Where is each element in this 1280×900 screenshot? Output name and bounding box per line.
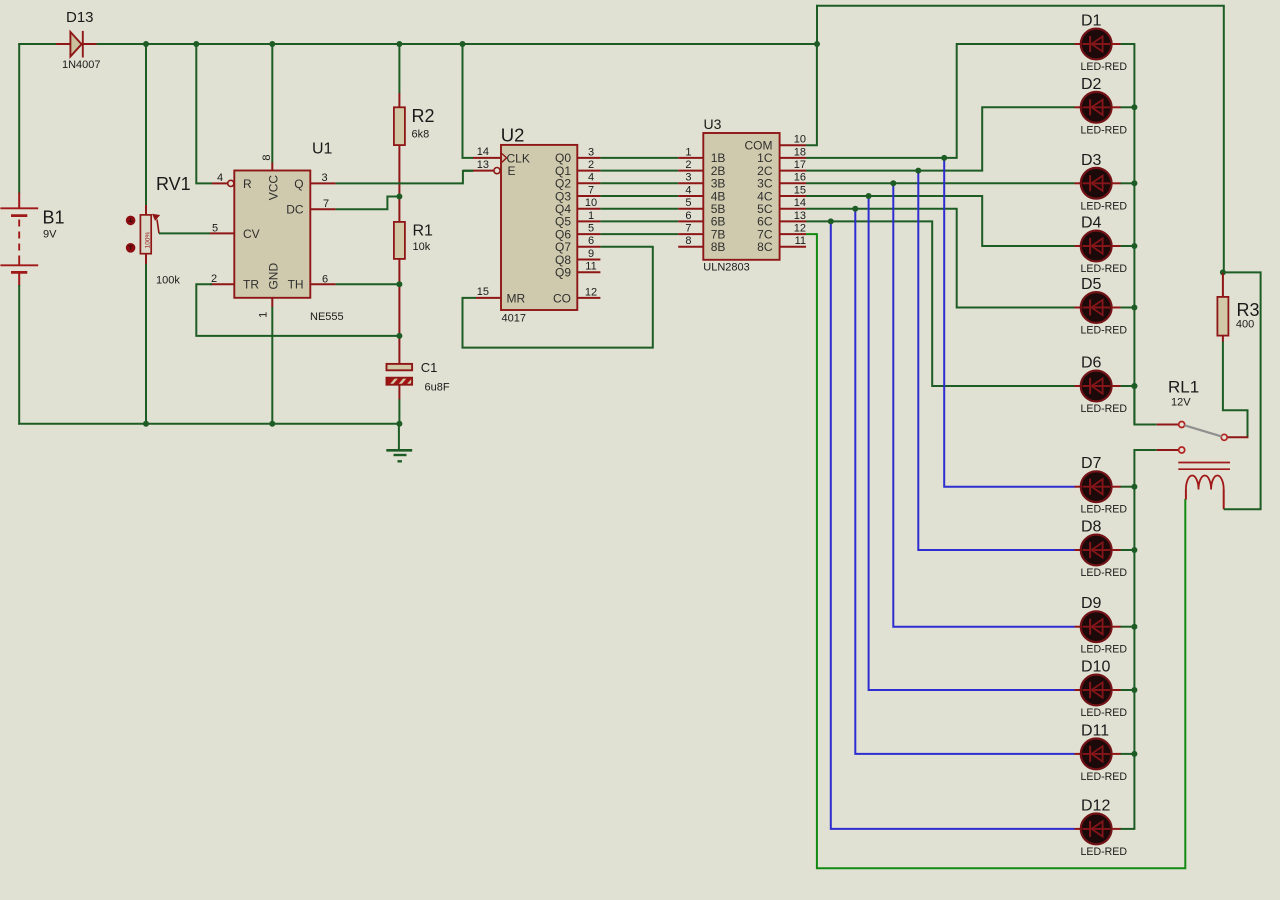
pin 4 Q2 of U2 bbox=[555, 172, 600, 191]
svg-text:Q: Q bbox=[294, 177, 303, 191]
wire D12 cathode link bbox=[1121, 828, 1136, 830]
pin 17 2C of U3 bbox=[757, 159, 806, 178]
svg-text:6u8F: 6u8F bbox=[425, 382, 450, 394]
svg-text:15: 15 bbox=[794, 184, 806, 196]
svg-text:16: 16 bbox=[794, 172, 806, 184]
wire Q1 to 2B bbox=[600, 170, 678, 172]
wire Q5 to 6B bbox=[600, 220, 678, 222]
svg-text:10: 10 bbox=[794, 133, 806, 145]
pin 11 Q9 of U2 bbox=[555, 261, 600, 280]
svg-text:D2: D2 bbox=[1081, 76, 1102, 93]
wire 3C to D3 bbox=[806, 182, 1075, 184]
svg-text:17: 17 bbox=[794, 159, 806, 171]
svg-text:D7: D7 bbox=[1081, 455, 1102, 472]
svg-text:15: 15 bbox=[477, 286, 489, 298]
svg-text:12: 12 bbox=[794, 223, 806, 235]
pin 18 1C of U3 bbox=[757, 146, 806, 165]
relay RL1 12V bbox=[1168, 378, 1230, 510]
svg-text:U3: U3 bbox=[704, 116, 722, 132]
wire cathode rail upper bbox=[1134, 44, 1156, 425]
wire D11 cathode link bbox=[1121, 753, 1136, 755]
wire blue tap to D12 bbox=[831, 221, 1075, 829]
LED D5 LED-RED bbox=[1075, 276, 1128, 337]
pin 3 Q0 of U2 bbox=[555, 146, 600, 165]
svg-text:LED-RED: LED-RED bbox=[1081, 644, 1128, 656]
svg-text:D11: D11 bbox=[1081, 722, 1109, 739]
LED D1 LED-RED bbox=[1075, 13, 1128, 74]
pin 13 6C of U3 bbox=[757, 210, 806, 229]
svg-text:6: 6 bbox=[685, 210, 691, 222]
node pole junction D6 bbox=[1131, 383, 1137, 389]
pin 14 CLK of U2 bbox=[473, 146, 530, 165]
svg-text:4: 4 bbox=[217, 172, 223, 184]
wire 6C to D6 bbox=[806, 221, 1075, 386]
svg-text:3: 3 bbox=[322, 172, 328, 184]
node TH junction bbox=[396, 281, 402, 287]
wire R3 to switch NO bbox=[1223, 342, 1248, 438]
wire R pin to VCC rail bbox=[196, 44, 212, 183]
wire R2 to R1 link bbox=[398, 145, 400, 222]
node rail D7 bbox=[1131, 484, 1137, 490]
node rail D3 bbox=[1131, 180, 1137, 186]
driver U3 ULN2803 body bbox=[703, 116, 779, 274]
svg-text:4: 4 bbox=[685, 184, 691, 196]
svg-text:LED-RED: LED-RED bbox=[1081, 771, 1128, 783]
node rail D11 bbox=[1131, 751, 1137, 757]
svg-text:E: E bbox=[508, 164, 516, 178]
svg-text:CO: CO bbox=[553, 291, 571, 305]
svg-text:LED-RED: LED-RED bbox=[1081, 61, 1128, 73]
svg-text:7: 7 bbox=[323, 198, 329, 210]
svg-text:6k8: 6k8 bbox=[412, 128, 430, 140]
LED D2 LED-RED bbox=[1075, 76, 1128, 137]
svg-text:VCC: VCC bbox=[267, 175, 281, 201]
wire U1 GND pin down to rail bbox=[271, 307, 273, 425]
pin 3 Q of U1 bbox=[294, 172, 335, 191]
node rail D5 bbox=[1131, 305, 1137, 311]
node C1 ground rail junction bbox=[396, 421, 402, 427]
svg-text:400: 400 bbox=[1236, 319, 1254, 331]
wire battery negative lead down bbox=[18, 285, 20, 425]
svg-text:D5: D5 bbox=[1081, 276, 1102, 293]
wire blue tap to D10 bbox=[869, 196, 1075, 690]
svg-text:4017: 4017 bbox=[502, 313, 526, 325]
node rail COM riser bbox=[814, 41, 820, 47]
pin 5 CV of U1 bbox=[210, 222, 260, 241]
wire 5C to D5 bbox=[806, 209, 1075, 308]
pin 2 TR of U1 bbox=[210, 273, 259, 292]
pin 6 TH of U1 bbox=[288, 273, 336, 291]
svg-text:RL1: RL1 bbox=[1168, 378, 1199, 397]
potentiometer RV1 100k bbox=[126, 174, 191, 287]
wire RV1 top lead bbox=[145, 44, 147, 206]
svg-text:D10: D10 bbox=[1081, 659, 1110, 676]
wire pole stub bbox=[1157, 424, 1179, 426]
pin 5 Q6 of U2 bbox=[555, 223, 600, 242]
svg-text:LED-RED: LED-RED bbox=[1081, 200, 1128, 212]
svg-text:8C: 8C bbox=[757, 240, 773, 254]
svg-text:R3: R3 bbox=[1237, 300, 1260, 320]
wire E stub link bbox=[463, 170, 473, 172]
svg-text:9: 9 bbox=[588, 248, 594, 260]
LED D12 LED-RED bbox=[1075, 797, 1128, 858]
wire blue tap to D7 bbox=[944, 158, 1074, 487]
svg-text:12: 12 bbox=[585, 286, 597, 298]
pin 1 GND of U1 bbox=[258, 263, 281, 318]
svg-text:LED-RED: LED-RED bbox=[1081, 325, 1128, 337]
svg-text:3: 3 bbox=[588, 146, 594, 158]
svg-text:R: R bbox=[243, 177, 252, 191]
svg-text:1N4007: 1N4007 bbox=[62, 59, 101, 71]
svg-text:14: 14 bbox=[794, 197, 806, 209]
wire COM to top rail bbox=[806, 44, 817, 145]
svg-text:4: 4 bbox=[588, 172, 594, 184]
wire VCC rail main segment (D13 to COM drop) bbox=[97, 43, 818, 45]
node R3 top junction bbox=[1220, 269, 1226, 275]
pin 8 VCC of U1 bbox=[261, 154, 281, 200]
wire Q7 to reset loop bbox=[600, 246, 653, 248]
wire Q4 to 5B bbox=[600, 208, 678, 210]
node TR loop junction bbox=[396, 333, 402, 339]
node RV1 rail junction bbox=[143, 421, 149, 427]
pin 7 7B of U3 bbox=[678, 223, 725, 242]
node rail D8 bbox=[1131, 547, 1137, 553]
battery B1 9V bbox=[0, 44, 64, 286]
wire VCC rail left segment (battery to D13) bbox=[18, 43, 56, 45]
svg-text:D13: D13 bbox=[66, 9, 94, 26]
node tap D11 bbox=[852, 206, 858, 212]
wire Q6 to 7B bbox=[600, 233, 678, 235]
svg-text:8: 8 bbox=[261, 154, 273, 160]
pin 6 6B of U3 bbox=[678, 210, 725, 229]
svg-text:1: 1 bbox=[588, 210, 594, 222]
LED D11 LED-RED bbox=[1075, 722, 1128, 783]
svg-text:LED-RED: LED-RED bbox=[1081, 707, 1128, 719]
pin 9 Q8 of U2 bbox=[555, 248, 600, 267]
svg-text:NE555: NE555 bbox=[310, 311, 344, 323]
svg-text:R2: R2 bbox=[412, 106, 435, 126]
svg-text:18: 18 bbox=[794, 146, 806, 158]
node rail D4 bbox=[1131, 243, 1137, 249]
wire 2C to D2 bbox=[806, 107, 1075, 170]
wire bottom ground rail bbox=[18, 423, 399, 425]
wire cathode rail lower bbox=[1134, 450, 1156, 829]
wire top rail to right side bbox=[816, 5, 1225, 7]
node DC junction bbox=[396, 194, 402, 200]
LED D10 LED-RED bbox=[1075, 659, 1128, 720]
svg-text:3: 3 bbox=[685, 172, 691, 184]
LED D8 LED-RED bbox=[1075, 519, 1128, 580]
node U1 GND rail junction bbox=[269, 421, 275, 427]
svg-text:MR: MR bbox=[507, 291, 526, 305]
wire NO stub bbox=[1227, 436, 1248, 438]
node rail RV1 bbox=[143, 41, 149, 47]
svg-text:D12: D12 bbox=[1081, 797, 1110, 814]
wire blue tap to D9 bbox=[893, 183, 1074, 626]
wire R1 bottom to C1 bbox=[398, 259, 400, 364]
svg-text:B1: B1 bbox=[43, 208, 65, 228]
svg-text:LED-RED: LED-RED bbox=[1081, 263, 1128, 275]
pin 2 Q1 of U2 bbox=[555, 159, 600, 178]
node rail D9 bbox=[1131, 624, 1137, 630]
svg-text:D1: D1 bbox=[1081, 13, 1102, 30]
node tap D8 bbox=[915, 168, 921, 174]
node tap D7 bbox=[941, 155, 947, 161]
pin 8 8B of U3 bbox=[678, 235, 725, 254]
svg-text:1: 1 bbox=[258, 312, 270, 318]
pin 4 R of U1 bbox=[212, 172, 252, 191]
wire D8 cathode link bbox=[1121, 549, 1136, 551]
wire D10 cathode link bbox=[1121, 689, 1136, 691]
svg-text:100%: 100% bbox=[145, 231, 152, 248]
pin 10 Q4 of U2 bbox=[555, 197, 600, 216]
wire D6 cathode link bbox=[1121, 385, 1136, 387]
pin 12 CO of U2 bbox=[553, 286, 600, 305]
svg-text:TR: TR bbox=[243, 278, 259, 292]
svg-text:13: 13 bbox=[794, 210, 806, 222]
node rail R pin bbox=[193, 41, 199, 47]
svg-text:8B: 8B bbox=[711, 240, 726, 254]
svg-text:U2: U2 bbox=[501, 124, 525, 145]
pin 3 3B of U3 bbox=[678, 172, 725, 191]
wire C1 bottom to rail bbox=[398, 399, 400, 424]
wire D7 cathode link bbox=[1121, 486, 1136, 488]
wire D4 cathode link bbox=[1121, 245, 1136, 247]
svg-text:LED-RED: LED-RED bbox=[1081, 504, 1128, 516]
counter U2 4017 body bbox=[501, 124, 578, 324]
svg-text:12V: 12V bbox=[1171, 397, 1191, 409]
svg-text:D4: D4 bbox=[1081, 215, 1102, 232]
svg-text:Q9: Q9 bbox=[555, 266, 571, 280]
node tap D12 bbox=[828, 218, 834, 224]
pin 11 8C of U3 bbox=[757, 235, 806, 254]
pin 6 Q7 of U2 bbox=[555, 235, 600, 254]
svg-text:GND: GND bbox=[267, 263, 281, 290]
LED D9 LED-RED bbox=[1075, 595, 1128, 656]
node rail D10 bbox=[1131, 687, 1137, 693]
svg-text:RV1: RV1 bbox=[156, 174, 191, 194]
svg-text:D9: D9 bbox=[1081, 595, 1102, 612]
node rail D6 bbox=[1131, 383, 1137, 389]
node tap D10 bbox=[866, 193, 872, 199]
pin 16 3C of U3 bbox=[757, 172, 806, 191]
wire blue tap to D8 bbox=[918, 171, 1074, 550]
LED D6 LED-RED bbox=[1075, 355, 1128, 416]
svg-text:10: 10 bbox=[585, 197, 597, 209]
svg-text:ULN2803: ULN2803 bbox=[703, 262, 749, 274]
pin 12 7C of U3 bbox=[757, 223, 806, 242]
wire top link rail riser bbox=[816, 5, 818, 45]
svg-text:5: 5 bbox=[212, 222, 218, 234]
svg-text:C1: C1 bbox=[421, 360, 438, 375]
wire 1C to D1 bbox=[806, 44, 1075, 158]
svg-text:U1: U1 bbox=[312, 141, 333, 158]
resistor R2 6k8 bbox=[394, 93, 435, 145]
svg-text:10k: 10k bbox=[413, 241, 431, 253]
wire Q output to E bbox=[336, 171, 474, 184]
wire D5 cathode link bbox=[1121, 307, 1136, 309]
svg-text:7: 7 bbox=[588, 184, 594, 196]
wire right drop to R3 bbox=[1223, 6, 1225, 273]
svg-text:2: 2 bbox=[211, 273, 217, 285]
svg-text:13: 13 bbox=[477, 159, 489, 171]
pin 13 E of U2 bbox=[473, 159, 516, 178]
svg-text:9V: 9V bbox=[43, 229, 57, 241]
svg-text:5: 5 bbox=[685, 197, 691, 209]
svg-text:LED-RED: LED-RED bbox=[1081, 124, 1128, 136]
op-amp U1 NE555 body bbox=[234, 141, 343, 324]
diode D13 1N4007 bbox=[56, 9, 101, 71]
LED D3 LED-RED bbox=[1075, 152, 1128, 213]
svg-text:CV: CV bbox=[243, 227, 260, 241]
node rail D2 bbox=[1131, 104, 1137, 110]
svg-text:DC: DC bbox=[286, 203, 304, 217]
wire D3 cathode link bbox=[1121, 182, 1136, 184]
pin 1 Q5 of U2 bbox=[555, 210, 600, 229]
wire D1 cathode link bbox=[1121, 43, 1136, 45]
node rail R2 bbox=[396, 41, 402, 47]
svg-text:LED-RED: LED-RED bbox=[1081, 403, 1128, 415]
node rail U1 VCC bbox=[269, 41, 275, 47]
wire DC to R1-R2 junction bbox=[336, 197, 400, 210]
node tap D9 bbox=[890, 180, 896, 186]
svg-text:2: 2 bbox=[685, 159, 691, 171]
wire Q3 to 4B bbox=[600, 195, 678, 197]
wire pole to cathode rail bbox=[1133, 386, 1135, 425]
svg-text:D6: D6 bbox=[1081, 355, 1102, 372]
wire TR loop bbox=[196, 284, 399, 336]
svg-text:5: 5 bbox=[588, 223, 594, 235]
wire blue tap to D11 bbox=[855, 209, 1074, 754]
pin 1 1B of U3 bbox=[678, 146, 725, 165]
pin 15 4C of U3 bbox=[757, 184, 806, 203]
wire D9 cathode link bbox=[1121, 626, 1136, 628]
node rail CLK bbox=[460, 41, 466, 47]
wire U1 VCC pin to rail bbox=[271, 44, 273, 163]
svg-text:14: 14 bbox=[477, 146, 489, 158]
svg-text:11: 11 bbox=[795, 235, 806, 247]
wire 7C to relay coil bbox=[806, 234, 1185, 868]
svg-text:R1: R1 bbox=[413, 222, 434, 239]
pin 7 Q3 of U2 bbox=[555, 184, 600, 203]
wire NC stub bbox=[1157, 449, 1179, 451]
wire Q0 to 1B bbox=[600, 157, 678, 159]
wire TH to R1 bottom bbox=[336, 283, 400, 285]
wire RV1 bottom lead bbox=[145, 264, 147, 425]
wire 4C to D4 bbox=[806, 196, 1075, 246]
svg-text:2: 2 bbox=[588, 159, 594, 171]
svg-text:1: 1 bbox=[685, 146, 691, 158]
pin 2 2B of U3 bbox=[678, 159, 725, 178]
svg-text:D8: D8 bbox=[1081, 519, 1102, 536]
svg-text:D3: D3 bbox=[1081, 152, 1102, 169]
wire Q2 to 3B bbox=[600, 182, 678, 184]
wire coil right to R3 top bbox=[1223, 272, 1261, 509]
svg-text:TH: TH bbox=[288, 278, 304, 292]
resistor R3 400 bbox=[1217, 272, 1259, 342]
pin 7 DC of U1 bbox=[286, 198, 335, 217]
pin 4 4B of U3 bbox=[678, 184, 725, 203]
LED D7 LED-RED bbox=[1075, 455, 1128, 516]
ground bbox=[386, 424, 412, 462]
capacitor C1 6u8F bbox=[387, 360, 450, 400]
svg-text:6: 6 bbox=[588, 235, 594, 247]
pin 10 COM of U3 bbox=[745, 133, 807, 152]
svg-text:8: 8 bbox=[685, 235, 691, 247]
svg-text:11: 11 bbox=[585, 261, 596, 273]
svg-text:LED-RED: LED-RED bbox=[1081, 846, 1128, 858]
svg-text:6: 6 bbox=[322, 273, 328, 285]
pin 14 5C of U3 bbox=[757, 197, 806, 216]
wire D2 cathode link bbox=[1121, 106, 1136, 108]
resistor R1 10k bbox=[394, 222, 433, 259]
pin 15 MR of U2 bbox=[476, 286, 525, 305]
svg-text:100k: 100k bbox=[156, 275, 180, 287]
wire CLK from VCC rail bbox=[463, 44, 474, 158]
wire MR reset loop bbox=[463, 247, 653, 348]
wire rail to R2 bbox=[398, 44, 400, 94]
wire RV1 wiper to CV bbox=[159, 232, 210, 234]
pin 5 5B of U3 bbox=[678, 197, 725, 216]
LED D4 LED-RED bbox=[1075, 215, 1128, 276]
svg-text:LED-RED: LED-RED bbox=[1081, 567, 1128, 579]
svg-text:7: 7 bbox=[685, 223, 691, 235]
